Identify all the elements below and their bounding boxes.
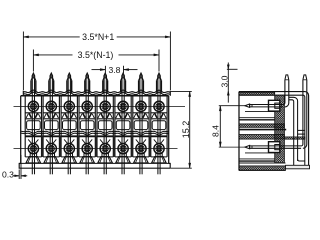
housing mid wall upper (hatched) — [239, 124, 284, 127]
upper cavity shelf lines — [245, 111, 275, 113]
cell 2 row-2 funnel chamfer — [46, 139, 50, 143]
cell 3 foot skirt — [62, 157, 77, 163]
cell 1 left wall — [24, 96, 26, 157]
cell 1 row-2 funnel chamfer — [28, 139, 32, 143]
cell 5 row-2 funnel chamfer — [100, 139, 104, 143]
cell 5 lower window opening — [98, 121, 112, 130]
pin P3 body sides — [66, 80, 68, 92]
cell 6 left wall — [114, 96, 116, 157]
screw clamp circle row 2 col 5 — [100, 144, 110, 154]
screw clamp circle row 2 col 6 — [118, 144, 128, 154]
pin P4 shoulders — [85, 78, 86, 80]
tick left (3.8) — [104, 66, 106, 74]
clamp box row 1 — [269, 100, 280, 111]
pin P5 body sides — [102, 80, 104, 92]
cell 1 shelf lines — [25, 112, 41, 114]
cell 4 foot skirt — [80, 157, 95, 163]
wire: flange top ledge line — [19, 162, 170, 164]
terminal columns x8 — [25, 73, 41, 174]
label 3.5*N+1 — [80, 34, 117, 42]
extension line bottom (15.2) — [171, 167, 192, 169]
pin P1 top tip — [32, 73, 35, 78]
screw clamp circle row 1 col 1 — [28, 101, 38, 111]
svg-text:3.5*(N-1): 3.5*(N-1) — [78, 50, 114, 60]
label 3.5*(N-1) — [73, 52, 119, 60]
cell 5 wire-funnel wedges — [101, 113, 104, 118]
cell 5 right wall — [112, 96, 114, 157]
cell 1 foot skirt — [26, 157, 41, 163]
cell 6 right wall — [130, 96, 132, 157]
pin P5 top tip — [104, 73, 107, 78]
screw clamp circle row 2 col 3 — [64, 144, 74, 154]
cell 8 right wall — [166, 96, 168, 157]
screw clamp circle row 2 col 7 — [136, 144, 146, 154]
cell 5 foot pedestal — [102, 154, 108, 157]
cell 7 left wall — [132, 96, 134, 157]
cell 5 foot skirt — [98, 157, 113, 163]
dimension 8.4 — [219, 106, 221, 147]
screw clamp circle row 1 col 8 — [154, 101, 164, 111]
bottom wall top line — [239, 162, 286, 164]
contact row 2: blades — [250, 145, 302, 147]
cell 7 wire-funnel wedges — [137, 113, 140, 118]
upper solder leg: branch from riser 1 — [289, 97, 298, 161]
cell 1 right wall — [41, 96, 43, 157]
cell 4 left wall — [78, 96, 80, 157]
cell 8 lower window opening — [152, 121, 166, 130]
contact row 1: centerline extension (to 8.4 dim) — [219, 105, 247, 107]
tick right (3.8) — [123, 66, 125, 74]
screw clamp circle row 2 col 1 — [28, 144, 38, 154]
cell 1 lower window opening — [27, 121, 41, 130]
svg-text:3.5*N+1: 3.5*N+1 — [82, 32, 114, 42]
clamp insert row 2 — [275, 145, 280, 150]
extension line top (15.2) — [171, 90, 192, 92]
screw clamp circle row 2 col 4 — [82, 144, 92, 154]
wire: body crown wavy top edge (2 lines) — [23, 90, 170, 93]
cell 2 left wall — [42, 96, 44, 157]
wire: mid-body wavy separator lines — [21, 131, 169, 133]
pin P3 top tip — [68, 73, 71, 78]
extension line right (0.3) — [20, 155, 22, 179]
cell 3 wire-funnel wedges — [65, 113, 68, 118]
cell 4 row-2 funnel chamfer — [82, 139, 86, 143]
pin P5 inner shank lines — [103, 79, 105, 175]
cell 5 shelf lines — [97, 112, 113, 114]
pin P7 shoulders — [139, 78, 140, 80]
housing mid wall lower thin extension (hatched) — [284, 137, 305, 139]
cell 7 foot skirt — [134, 157, 149, 163]
node: row-1 centerline — [14, 105, 186, 107]
pin 1 (upper row) riser with elbow — [283, 80, 285, 105]
cell 8 foot pedestal — [156, 154, 162, 157]
cell 8 shelf lines — [151, 112, 167, 114]
cell 1 wire-funnel wedges — [29, 113, 32, 118]
cell 3 left wall — [60, 96, 62, 157]
contact row 1: blades — [250, 104, 284, 106]
screw clamp circle row 2 col 8 — [154, 144, 164, 154]
node: row-2 centerline — [14, 148, 178, 150]
inter-cell dark bars (row 2 zone) — [42, 135, 44, 157]
lower cavity shelf lines — [245, 152, 275, 154]
screw clamp circle row 1 col 6 — [118, 101, 128, 111]
cell 3 lower window opening — [63, 121, 77, 130]
rear tower upper (hatched) — [275, 95, 285, 129]
extension line right (3.5*(N-1)) — [158, 50, 160, 72]
housing bottom edge — [239, 169, 286, 171]
clamp box row 2 — [269, 142, 280, 153]
pin P4 top tip — [86, 73, 89, 78]
cell 4 lower window opening — [80, 121, 94, 130]
pin P2 body sides — [48, 80, 50, 92]
svg-text:3.8: 3.8 — [109, 65, 121, 75]
cell 7 shelf lines — [133, 112, 149, 114]
housing bottom wall (hatched) — [239, 166, 286, 170]
pin P1 inner shank lines — [31, 79, 33, 175]
foot inner step — [298, 159, 305, 161]
extension line top (3.0) — [227, 68, 238, 70]
cell 7 row-2 funnel chamfer — [136, 139, 140, 143]
screw clamp circle row 1 col 3 — [64, 101, 74, 111]
cell 2 foot skirt — [44, 157, 59, 163]
wire: crown right edge — [169, 91, 171, 96]
extension line left (3.5*N+1) — [22, 32, 24, 91]
pin P2 top tip — [50, 73, 53, 78]
cell 6 lower window opening — [116, 121, 130, 130]
svg-text:0.3: 0.3 — [2, 170, 14, 180]
pin P7 inner shank lines — [139, 79, 141, 175]
contact slot row 1 (white cut) — [269, 100, 280, 111]
screw clamp circle row 1 col 5 — [100, 101, 110, 111]
cell 4 wire-funnel wedges — [83, 113, 86, 118]
svg-text:15.2: 15.2 — [181, 121, 191, 139]
cell 8 wire-funnel wedges — [155, 113, 158, 118]
cell 3 shelf lines — [61, 112, 77, 114]
pin P4 inner shank lines — [85, 79, 87, 175]
cross arms joining legs — [298, 129, 305, 131]
screw clamp circle row 1 col 7 — [136, 101, 146, 111]
housing left edge — [238, 92, 240, 171]
cell 2 shelf lines — [43, 112, 59, 114]
wire: body left edge — [20, 96, 22, 164]
cell 4 right wall — [94, 96, 96, 157]
pin P3 inner shank lines — [67, 79, 69, 175]
cell 2 foot pedestal — [48, 154, 54, 157]
screw clamp circle row 1 col 4 — [82, 101, 92, 111]
cell 6 shelf lines — [115, 112, 131, 114]
pin P2 shoulders — [49, 78, 50, 80]
cell 8 row-2 funnel chamfer — [154, 139, 158, 143]
cell 1 foot pedestal — [30, 154, 36, 157]
cell 4 foot pedestal — [84, 154, 90, 157]
wire: body top shoulder line — [21, 95, 169, 97]
pin P6 top tip — [122, 73, 125, 78]
wire: body right edge — [168, 96, 170, 164]
housing mid wall lower (hatched) — [239, 135, 284, 140]
cell 7 lower window opening — [134, 121, 148, 130]
pin P3 shoulders — [67, 78, 68, 80]
wire: base flange outline — [19, 163, 170, 168]
pin P7 top tip — [140, 73, 143, 78]
extension line right (3.5*N+1) — [169, 32, 171, 91]
cell 7 foot pedestal — [138, 154, 144, 157]
pin P8 shoulders — [157, 78, 158, 80]
cell 6 foot skirt — [116, 157, 131, 163]
contact row 2: centerline extension (to 8.4 dim) — [219, 146, 247, 148]
pin P7 body sides — [138, 80, 140, 92]
contact slot row 2 (white cut) — [269, 142, 280, 153]
pin P1 shoulders — [31, 78, 32, 80]
between-level line — [239, 129, 286, 131]
contact row 2: tip — [245, 145, 250, 148]
cell 8 left wall — [150, 96, 152, 157]
housing top wall (hatched) — [239, 92, 275, 95]
pin P6 body sides — [120, 80, 122, 92]
cell 5 left wall — [96, 96, 98, 157]
cell 6 foot pedestal — [120, 154, 126, 157]
pin P8 inner shank lines — [157, 79, 159, 175]
pin P5 shoulders — [103, 78, 104, 80]
pin P8 top tip — [158, 73, 161, 78]
cell 3 right wall — [76, 96, 78, 157]
cell 2 lower window opening — [45, 121, 59, 130]
pin P6 shoulders — [121, 78, 122, 80]
cell 7 right wall — [148, 96, 150, 157]
pin P1 body sides — [30, 80, 32, 92]
pin 2 tip cap — [303, 75, 307, 80]
cell 3 foot pedestal — [66, 154, 72, 157]
pin 2 (lower row) riser with elbow — [301, 80, 303, 146]
cell 6 wire-funnel wedges — [119, 113, 122, 118]
pin P2 inner shank lines — [49, 79, 51, 175]
rear tower lower (hatched) — [275, 130, 285, 163]
cell 8 foot skirt — [152, 157, 167, 163]
foot bottom bar — [286, 165, 310, 169]
cell 2 wire-funnel wedges — [47, 113, 50, 118]
svg-text:8.4: 8.4 — [211, 125, 221, 137]
pin P4 body sides — [84, 80, 86, 92]
pin P8 body sides — [156, 80, 158, 92]
clamp insert row 1 — [275, 103, 280, 108]
wire: crown left edge — [22, 91, 24, 96]
cell 6 row-2 funnel chamfer — [118, 139, 122, 143]
cell 3 row-2 funnel chamfer — [64, 139, 68, 143]
svg-text:3.0: 3.0 — [219, 75, 229, 87]
cell 2 right wall — [58, 96, 60, 157]
top edge pair running right into long right leg — [239, 92, 309, 169]
extension line left (0.3) — [18, 170, 20, 180]
extension line left (3.5*(N-1)) — [32, 50, 34, 72]
screw clamp circle row 2 col 2 — [46, 144, 56, 154]
pin 1 tip cap — [285, 75, 289, 80]
contact row 1: tip — [245, 104, 250, 107]
pin P6 inner shank lines — [121, 79, 123, 175]
screw clamp circle row 1 col 2 — [46, 101, 56, 111]
cell 4 shelf lines — [79, 112, 95, 114]
